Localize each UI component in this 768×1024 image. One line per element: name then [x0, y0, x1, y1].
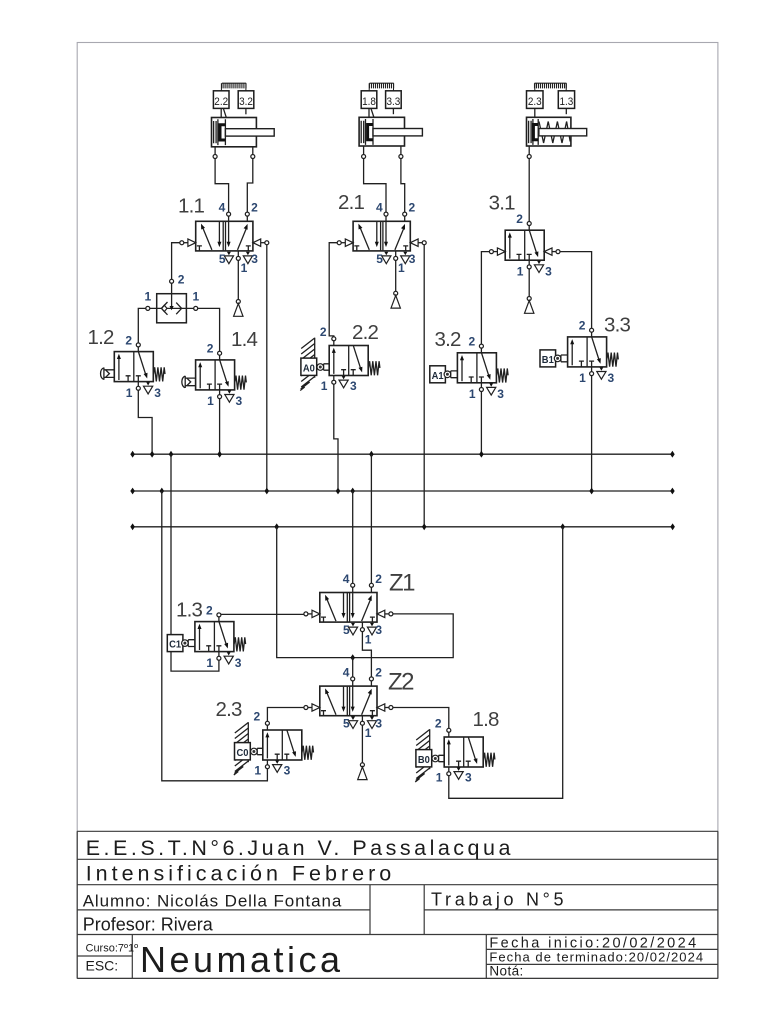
svg-text:Trabajo N°5: Trabajo N°5: [431, 890, 567, 910]
svg-text:Z1: Z1: [389, 570, 415, 597]
valve 3.3 (3/2 roller B1): [568, 319, 615, 385]
wire valve 3.2 port 1 to bus 1: [480, 391, 482, 454]
svg-text:A0: A0: [303, 364, 315, 375]
cylinder B (double-acting): [359, 117, 422, 146]
svg-text:ESC:: ESC:: [86, 958, 119, 974]
wire valve 2.3 port 2 to valve Z2 left pilot: [267, 708, 304, 722]
wire valve 1.1 right pilot down to bus 2: [266, 245, 268, 491]
svg-text:3.2: 3.2: [435, 328, 461, 351]
supply under valve 1.1 port 1: [237, 260, 239, 299]
wire valve 2.1 left pilot to valve 2.2 port 2: [329, 243, 337, 337]
wire bus 2 to valve Z1 port 4: [352, 491, 354, 583]
wire bus 1 to valve Z1 port 2: [370, 454, 372, 583]
bus line 3: [133, 526, 673, 528]
svg-text:Intensificación Febrero: Intensificación Febrero: [86, 862, 396, 886]
wire valve 1.3 port 2 to valve Z1 left pilot: [221, 613, 304, 615]
junction to valve Z2 port 4: [350, 654, 355, 661]
wire valve 1.1 left pilot to shuttle valve outlet: [172, 243, 180, 294]
valve 3.2 (3/2 roller A1): [457, 335, 504, 401]
svg-text:1.8: 1.8: [473, 708, 499, 731]
cylinder C (single-acting, spring return): [527, 117, 587, 146]
cylinder A position label box 3.2: [238, 91, 254, 115]
supply under valve 3.1 port 1: [528, 269, 530, 297]
title block lines: [77, 831, 718, 978]
wire cylinder B left port to valve 2.1 port 4: [364, 146, 386, 212]
svg-text:Alumno: Nicolás Della Fontana: Alumno: Nicolás Della Fontana: [83, 891, 343, 910]
valve 3.1 right pilot: [544, 248, 560, 255]
wire valve Z2 right pilot to valve 1.8 port 2: [393, 708, 449, 729]
wire cylinder A left port to valve 1.1 port 4: [215, 147, 229, 212]
wire cylinder A right port to valve 1.1 port 2: [247, 147, 253, 212]
svg-text:3.2: 3.2: [239, 96, 253, 108]
valve 1.4 (3/2 push button): [196, 342, 243, 408]
svg-text:1.1: 1.1: [178, 195, 204, 218]
wire valve 1.2 port 2 to shuttle left inlet: [138, 308, 156, 343]
svg-text:Z2: Z2: [388, 669, 414, 696]
cylinder C position label box 1.3: [558, 91, 574, 114]
svg-text:B0: B0: [418, 755, 430, 766]
svg-text:2.3: 2.3: [216, 698, 242, 721]
drawing frame: [77, 43, 718, 979]
valve Z2 (5/2 double pilot): [304, 665, 393, 740]
valve 1.2 (3/2 push button): [114, 333, 161, 399]
svg-text:1.3: 1.3: [176, 599, 202, 622]
cylinder A distance ruler: [221, 83, 246, 91]
wire valve Z1 port 1 to valve Z2 port 2: [362, 632, 371, 677]
cylinder B position label box 3.3: [386, 91, 402, 114]
wire bus 2 to valve 2.3 port 1: [162, 491, 268, 781]
svg-text:2.3: 2.3: [528, 96, 542, 108]
cylinder A position label box 2.2: [213, 91, 229, 118]
shuttle valve (OR): [144, 289, 199, 323]
valve 3.1 (3/2 double pilot): [505, 212, 552, 278]
wire shuttle right inlet to valve 1.4 port 2: [186, 308, 219, 351]
valve 1.1 (5/2 double pilot): [180, 201, 269, 276]
svg-text:3.3: 3.3: [604, 314, 630, 337]
bus line 1: [133, 453, 673, 455]
bus line 2: [133, 490, 673, 492]
svg-text:1: 1: [193, 289, 200, 303]
wire valve 3.1 left pilot to valve 3.2 port 2: [481, 252, 489, 345]
wire bus 3 to valve Z1 right pilot: [277, 527, 454, 658]
svg-text:E.E.S.T.N°6.Juan V. Passalacqu: E.E.S.T.N°6.Juan V. Passalacqua: [86, 836, 514, 860]
svg-text:Neumatica: Neumatica: [140, 939, 344, 980]
valve 1.3 (3/2 roller C1): [195, 603, 242, 669]
svg-text:Fecha de terminado:20/02/2024: Fecha de terminado:20/02/2024: [489, 950, 704, 965]
wire valve 1.8 port 1 to bus 3: [449, 527, 563, 799]
wire cylinder C port to valve 3.1 port 2: [528, 146, 530, 222]
svg-text:C0: C0: [237, 748, 249, 759]
svg-text:2.1: 2.1: [338, 191, 364, 214]
svg-text:3.1: 3.1: [489, 192, 515, 215]
wire valve 2.1 right pilot down to bus 3: [423, 245, 425, 527]
valve 2.1 (5/2 double pilot): [337, 201, 426, 276]
valve 3.1 left pilot: [489, 248, 505, 255]
svg-text:1: 1: [144, 289, 151, 303]
svg-text:1.3: 1.3: [560, 96, 574, 108]
wire valve 1.2 port 1 to bus 1: [138, 390, 152, 454]
wire valve 1.4 port 1 to bus 1: [219, 399, 221, 455]
wire valve 2.2 port 1 to bus 2: [334, 384, 338, 491]
cylinder C position label box 2.3: [527, 91, 544, 118]
wire bus 1 to valve 1.3 port 1: [171, 454, 219, 671]
svg-text:2: 2: [178, 272, 185, 286]
svg-text:1.2: 1.2: [88, 326, 114, 349]
svg-text:B1: B1: [542, 355, 554, 366]
svg-text:2.2: 2.2: [352, 321, 378, 344]
svg-text:1.4: 1.4: [231, 328, 257, 351]
supply under valve 2.1 port 1: [395, 260, 397, 291]
valve 2.2 (3/2 roller, pressed): [300, 338, 329, 391]
svg-text:Curso:7º1º: Curso:7º1º: [86, 943, 139, 955]
wire valve 3.1 right pilot to valve 3.3 port 2: [560, 252, 592, 329]
svg-text:A1: A1: [432, 371, 444, 382]
svg-text:Notá:: Notá:: [489, 964, 523, 979]
valve 1.8 (3/2 roller, pressed): [415, 729, 444, 782]
svg-text:Profesor: Rivera: Profesor: Rivera: [83, 914, 214, 934]
wire valve 3.3 port 1 to bus 2: [591, 376, 593, 492]
svg-text:1.8: 1.8: [362, 96, 376, 108]
valve 2.3 (3/2 roller, pressed): [234, 722, 263, 775]
svg-text:C1: C1: [169, 640, 181, 651]
cylinder B distance ruler: [369, 83, 394, 91]
svg-text:2.2: 2.2: [214, 96, 228, 108]
cylinder B position label box 1.8: [361, 91, 377, 118]
wire cylinder B right port to valve 2.1 port 2: [401, 146, 405, 212]
valve Z1 (5/2 double pilot): [304, 572, 393, 647]
supply under valve Z2 port 1: [361, 725, 363, 763]
cylinder C distance ruler: [535, 83, 567, 91]
svg-text:3.3: 3.3: [387, 96, 401, 108]
cylinder A (double-acting): [212, 118, 275, 147]
